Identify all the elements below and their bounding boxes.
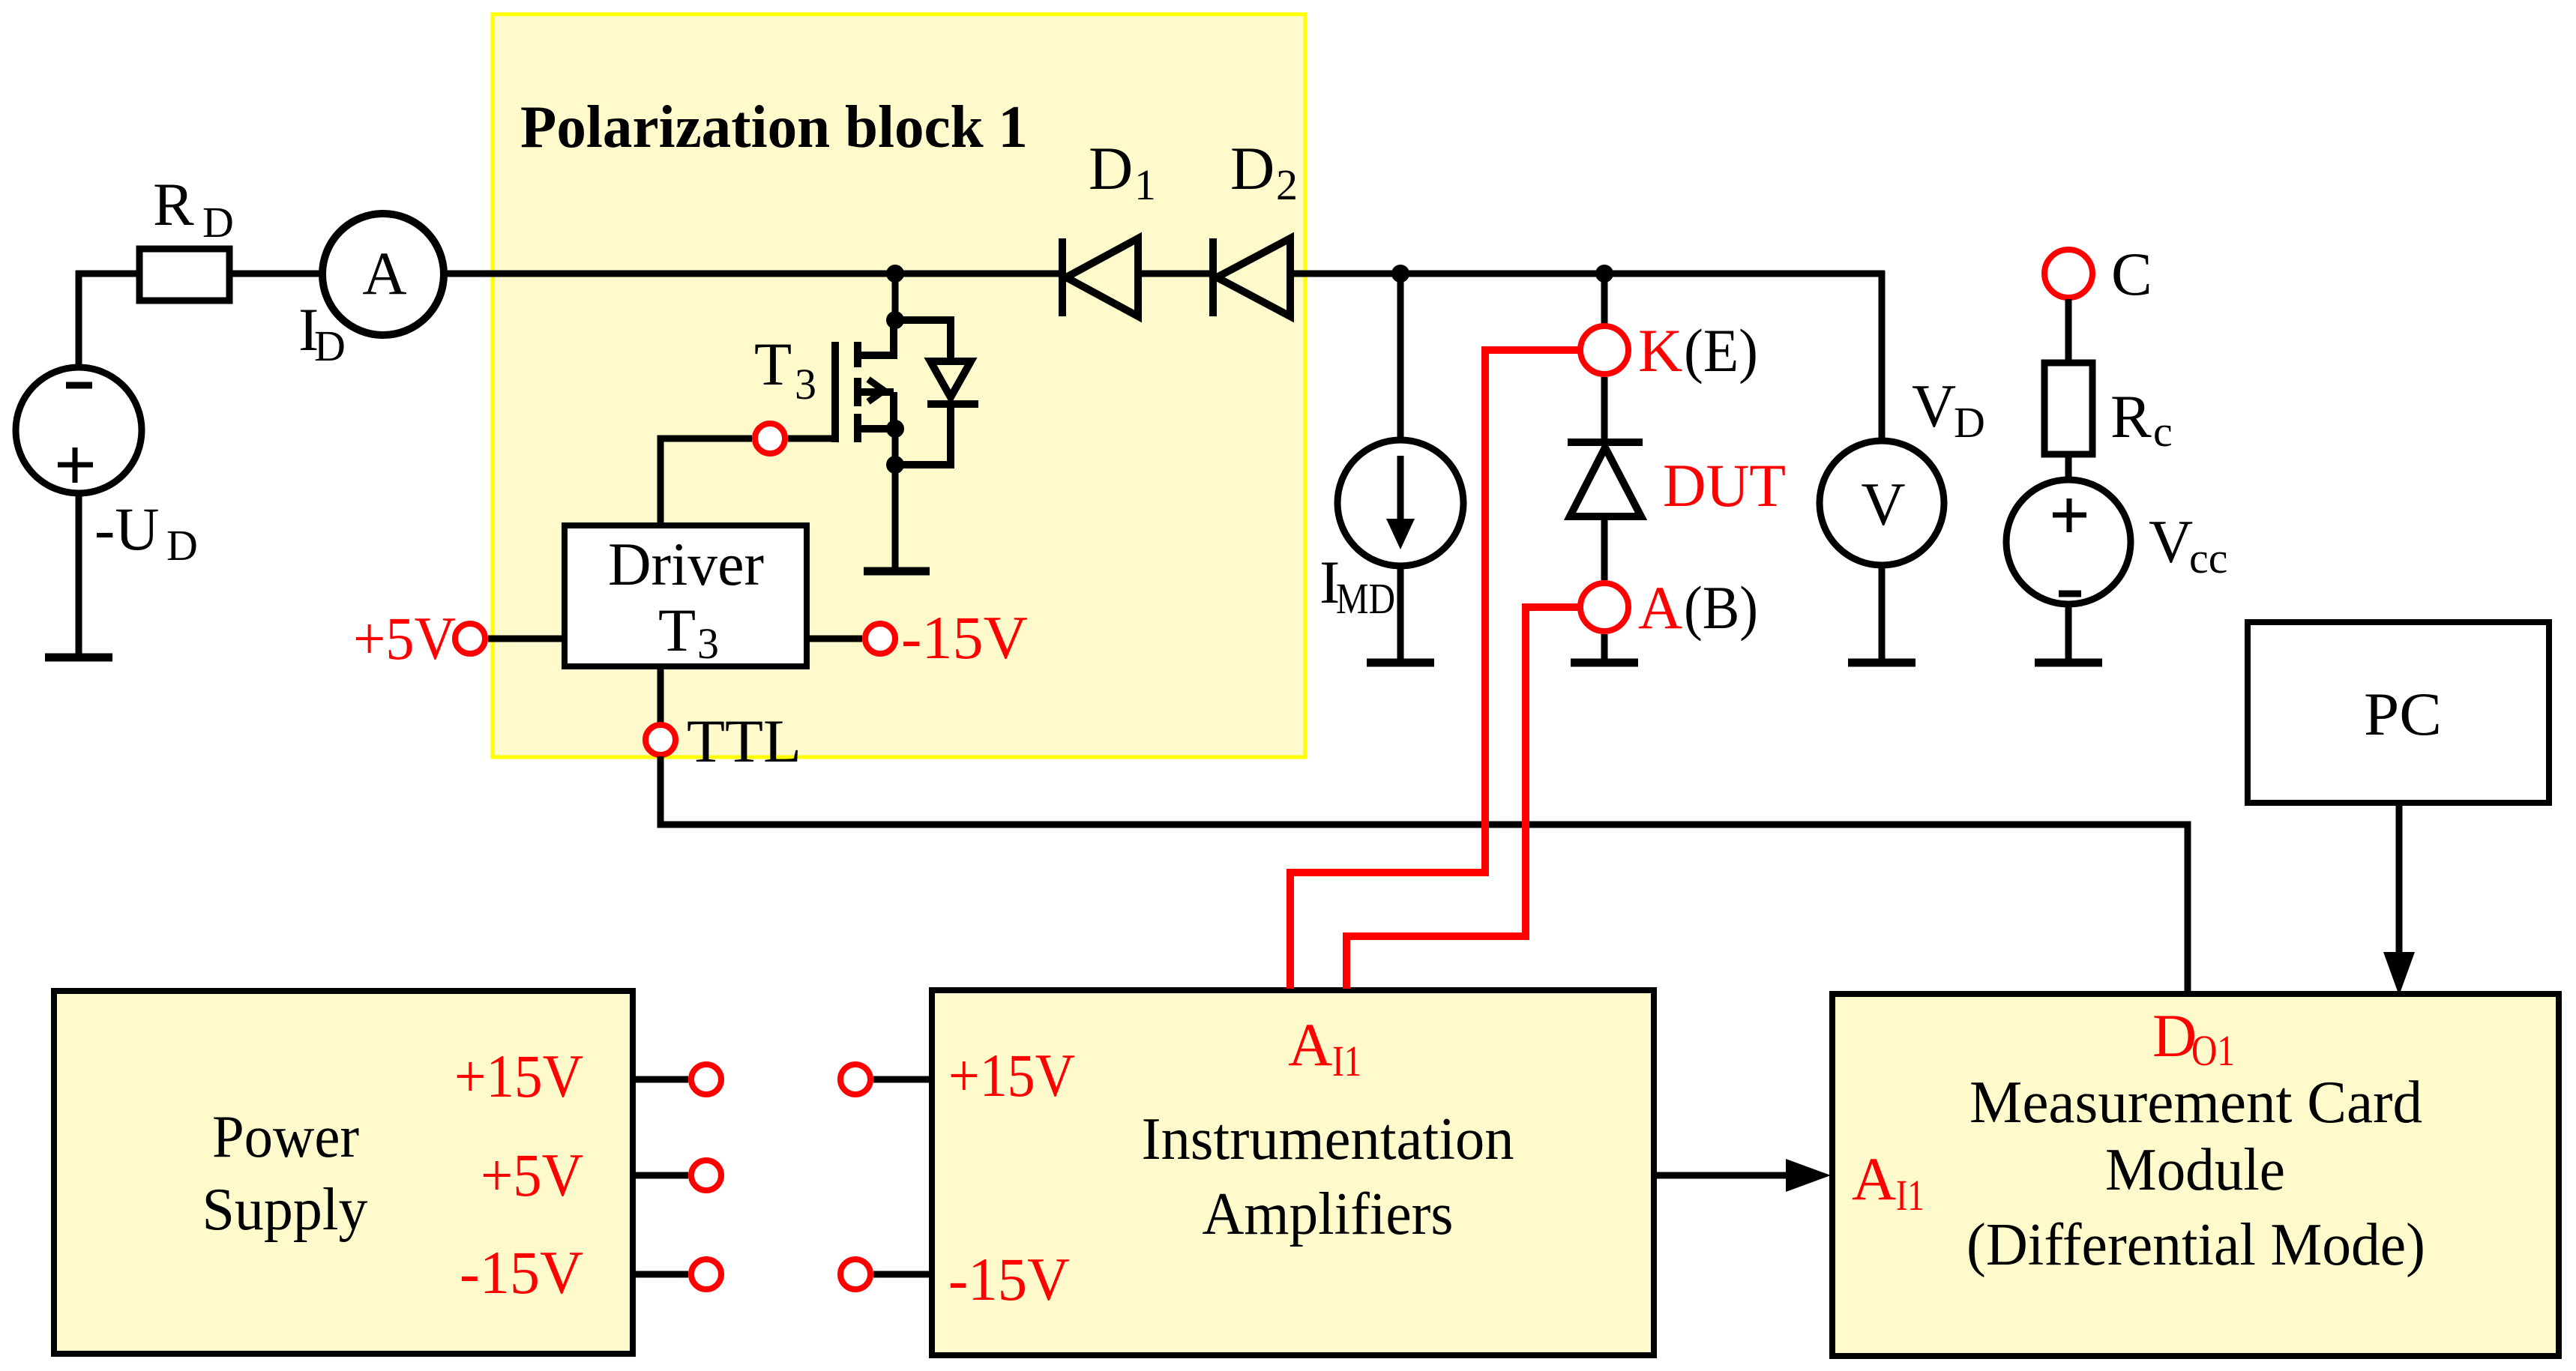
wire PC to measurement card xyxy=(2396,803,2403,953)
wire TTL to measurement card xyxy=(660,756,2188,994)
svg-text:2: 2 xyxy=(1276,160,1298,209)
PC box xyxy=(2248,622,2549,803)
power supply block box xyxy=(54,991,633,1354)
wire K(E) to DUT xyxy=(1601,377,1608,442)
terminal -15V instrumentation xyxy=(840,1259,870,1289)
driver T3 box xyxy=(565,525,807,666)
wire A(B) to ground xyxy=(1601,634,1608,663)
measurement card module block box xyxy=(1832,994,2559,1356)
junction dot node drain xyxy=(886,311,904,329)
ground below voltmeter xyxy=(1848,659,1916,667)
instrumentation amplifiers block box xyxy=(932,990,1654,1355)
svg-text:-15V: -15V xyxy=(460,1238,583,1307)
svg-text:Power: Power xyxy=(212,1104,359,1170)
svg-text:A: A xyxy=(1288,1010,1332,1079)
svg-text:Measurement Card: Measurement Card xyxy=(1969,1070,2422,1136)
ground below I_MD xyxy=(1367,659,1434,667)
svg-text:+5V: +5V xyxy=(481,1141,583,1209)
wire -15V power supply xyxy=(633,1271,688,1278)
terminal gate T3 xyxy=(755,424,785,454)
svg-text:1: 1 xyxy=(1134,160,1156,209)
diode DUT xyxy=(1568,442,1643,516)
svg-text:V: V xyxy=(1861,470,1905,538)
svg-text:D: D xyxy=(166,521,198,570)
svg-text:+15V: +15V xyxy=(454,1042,583,1110)
svg-text:C: C xyxy=(2111,240,2152,308)
wire bus to I_MD xyxy=(1397,274,1404,440)
svg-text:Amplifiers: Amplifiers xyxy=(1203,1181,1454,1247)
svg-text:MD: MD xyxy=(1336,574,1395,623)
wire main bus segment 4 xyxy=(1138,271,1213,277)
terminal +15V power supply xyxy=(691,1064,721,1094)
svg-text:c: c xyxy=(2153,407,2173,456)
svg-text:+5V: +5V xyxy=(353,604,456,672)
wire +15V power supply xyxy=(633,1076,688,1083)
voltmeter V xyxy=(1820,441,1944,565)
wire -15V instrumentation xyxy=(873,1271,932,1278)
terminal -15V xyxy=(865,624,895,654)
svg-text:D: D xyxy=(314,322,346,370)
svg-text:Supply: Supply xyxy=(202,1177,368,1243)
svg-text:D: D xyxy=(1230,134,1275,202)
terminal K(E) xyxy=(1580,326,1628,374)
junction dot node bus-IMD xyxy=(1391,265,1409,283)
svg-text:Instrumentation: Instrumentation xyxy=(1142,1106,1514,1172)
svg-text:I1: I1 xyxy=(1896,1171,1925,1220)
wire I_MD to ground xyxy=(1397,566,1404,663)
wire R_c to V_cc xyxy=(2065,454,2072,480)
svg-text:3: 3 xyxy=(795,360,816,409)
svg-text:D: D xyxy=(1954,398,1985,447)
svg-text:A: A xyxy=(362,239,406,307)
red wire A(B) to A_I1 xyxy=(1346,607,1580,989)
wire gate lead xyxy=(660,439,752,525)
wire bus to drain node xyxy=(892,274,899,320)
wire -U_D source to ground xyxy=(76,493,82,657)
resistor R_c xyxy=(2044,363,2092,454)
wire main bus segment 2 xyxy=(229,271,324,277)
svg-text:Driver: Driver xyxy=(608,530,764,598)
red wire K(E) to A_I1 xyxy=(1290,350,1580,989)
svg-text:A: A xyxy=(1852,1145,1896,1213)
terminal +5V power supply xyxy=(691,1160,721,1190)
terminal A(B) xyxy=(1580,583,1628,631)
wire +15V instrumentation xyxy=(873,1076,932,1083)
svg-text:D: D xyxy=(1089,134,1133,202)
wire source to ground xyxy=(892,425,899,571)
svg-text:PC: PC xyxy=(2364,680,2442,748)
T3 body arrow xyxy=(868,379,884,402)
wire voltmeter to ground xyxy=(1879,565,1886,663)
voltage source -U_D xyxy=(16,367,142,493)
arrowhead instrumentation to measurement card xyxy=(1786,1159,1831,1192)
ground below DUT xyxy=(1571,659,1638,667)
body diode of T3 xyxy=(895,320,978,465)
svg-text:O1: O1 xyxy=(2191,1026,2235,1075)
svg-text:(Differential Mode): (Differential Mode) xyxy=(1966,1212,2425,1278)
resistor R_D xyxy=(139,249,229,301)
wire bus corner to voltmeter xyxy=(1879,271,1886,441)
ammeter A xyxy=(322,214,444,335)
svg-text:I1: I1 xyxy=(1332,1037,1361,1085)
transistor T3 MOSFET xyxy=(835,320,897,442)
wire driver to TTL xyxy=(657,666,664,723)
svg-text:A: A xyxy=(1638,573,1682,642)
svg-text:R: R xyxy=(2110,382,2152,451)
wire +5V to driver xyxy=(488,636,565,642)
terminal C xyxy=(2044,250,2092,298)
svg-text:-15V: -15V xyxy=(948,1245,1070,1313)
ground below -U_D xyxy=(45,654,112,662)
wire +5V power supply xyxy=(633,1172,688,1179)
voltage source V_cc xyxy=(2006,480,2131,604)
svg-text:-U: -U xyxy=(94,495,160,563)
svg-text:D: D xyxy=(2152,1001,2197,1070)
svg-text:T: T xyxy=(658,596,696,664)
svg-text:+15V: +15V xyxy=(948,1041,1075,1109)
wire C to R_c xyxy=(2065,299,2072,363)
svg-text:V: V xyxy=(1912,372,1956,440)
junction dot node bus-DUT xyxy=(1595,265,1613,283)
junction dot node source-diode xyxy=(886,456,904,474)
svg-text:R: R xyxy=(153,170,194,238)
terminal +5V xyxy=(455,624,485,654)
svg-text:-15V: -15V xyxy=(901,603,1028,672)
svg-text:DUT: DUT xyxy=(1663,451,1786,519)
svg-text:TTL: TTL xyxy=(687,707,801,775)
svg-text:D: D xyxy=(202,198,234,247)
diode D2 xyxy=(1213,238,1290,316)
wire bus to K(E) xyxy=(1601,274,1608,324)
wire main bus segment 5 xyxy=(1290,271,1885,277)
svg-text:Polarization block 1: Polarization block 1 xyxy=(520,94,1028,160)
svg-text:(E): (E) xyxy=(1684,316,1758,385)
wire main bus segment 3 xyxy=(442,271,1062,277)
svg-text:3: 3 xyxy=(697,619,719,668)
wire -U_D source to bus xyxy=(76,271,82,367)
terminal -15V power supply xyxy=(691,1259,721,1289)
current source I_MD xyxy=(1337,440,1463,566)
junction dot node bus-T3 xyxy=(886,265,904,283)
wire main bus segment 1 xyxy=(76,271,139,277)
terminal TTL xyxy=(645,725,675,755)
svg-text:cc: cc xyxy=(2189,534,2228,582)
svg-text:T: T xyxy=(754,330,792,398)
wire instrumentation to measurement card xyxy=(1654,1172,1789,1179)
terminal +15V instrumentation xyxy=(840,1064,870,1094)
ground below T3 xyxy=(864,567,930,576)
polarization block 1 yellow region xyxy=(493,14,1305,757)
svg-text:V: V xyxy=(2149,507,2193,576)
junction dot node source stub xyxy=(886,420,904,438)
arrowhead PC to measurement card xyxy=(2383,952,2415,995)
svg-text:(B): (B) xyxy=(1684,573,1758,642)
svg-text:Module: Module xyxy=(2105,1137,2285,1203)
ground below V_cc xyxy=(2035,659,2102,667)
wire DUT to A(B) xyxy=(1601,516,1608,580)
diode D1 xyxy=(1062,238,1138,316)
wire V_cc to ground xyxy=(2065,604,2072,663)
svg-text:K: K xyxy=(1638,316,1682,385)
wire driver to -15V xyxy=(807,636,862,642)
